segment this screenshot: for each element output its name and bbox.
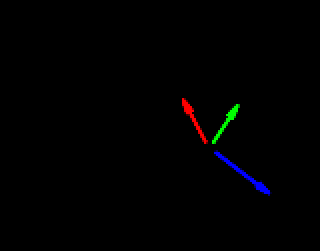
z-axis arrow (blue), pointing down-right from frame origin <box>214 150 272 196</box>
y-axis arrow (green), pointing up-right from frame origin <box>212 104 240 144</box>
x-axis arrow (red), pointing up-left from frame origin <box>182 98 208 144</box>
